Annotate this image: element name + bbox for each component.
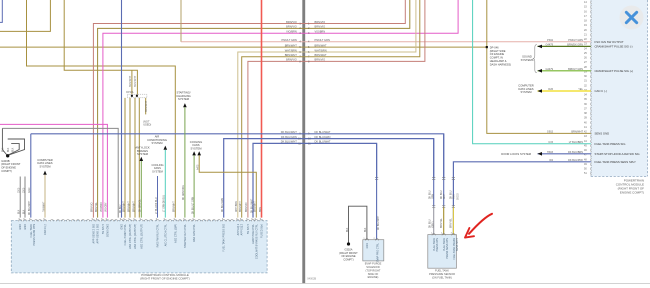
svg-text:(RIGHT FRONT: (RIGHT FRONT bbox=[339, 251, 358, 255]
wire W6 WHT/BRN bbox=[238, 0, 416, 218]
svg-text:FUEL PUMP CTRL: FUEL PUMP CTRL bbox=[124, 223, 127, 245]
svg-text:WHT/BRN: WHT/BRN bbox=[285, 48, 297, 52]
svg-text:DK BLU/WHT: DK BLU/WHT bbox=[315, 130, 331, 134]
svg-text:W4: W4 bbox=[549, 159, 553, 162]
evap pin labels bbox=[366, 242, 379, 262]
svg-text:BRN/YEL: BRN/YEL bbox=[441, 217, 443, 228]
wire cooling olive bbox=[199, 155, 256, 217]
G302A labels bbox=[339, 247, 358, 261]
svg-text:PRESSURE SENSOR: PRESSURE SENSOR bbox=[429, 272, 455, 276]
svg-text:APP SENS 1 SIG: APP SENS 1 SIG bbox=[97, 224, 100, 244]
svg-text:SENS SPLY: SENS SPLY bbox=[456, 238, 459, 252]
svg-text:DK BLU/BRN: DK BLU/BRN bbox=[568, 151, 583, 154]
sensor wire labels bbox=[430, 190, 460, 228]
svg-text:COMPUTER: COMPUTER bbox=[518, 83, 533, 87]
svg-text:FUEL TANK: FUEL TANK bbox=[435, 269, 449, 273]
PCM caption left page bbox=[140, 273, 190, 280]
computer data lines text L bbox=[37, 158, 52, 169]
evap caption bbox=[365, 262, 382, 280]
svg-text:SYSTEM: SYSTEM bbox=[137, 152, 149, 156]
svg-text:SENS GND: SENS GND bbox=[106, 224, 109, 237]
svg-text:DK BLU/: DK BLU/ bbox=[451, 190, 453, 199]
svg-text:VIO/BRN: VIO/BRN bbox=[101, 202, 103, 212]
panel left dashed border bbox=[590, 0, 592, 176]
svg-text:ASD CTRL (OUTPUT): ASD CTRL (OUTPUT) bbox=[140, 224, 143, 249]
svg-text:DASH HARNESS): DASH HARNESS) bbox=[490, 62, 511, 66]
svg-text:5V SPLY: 5V SPLY bbox=[102, 224, 105, 234]
wire R10 DK BLU/GRN bbox=[224, 139, 434, 218]
svg-text:OF ENGINE: OF ENGINE bbox=[341, 254, 356, 258]
svg-text:DK BLU/: DK BLU/ bbox=[430, 190, 432, 199]
red arrow head bbox=[465, 228, 474, 238]
wire press sply bbox=[453, 162, 590, 235]
PCM connector panel bbox=[591, 0, 648, 176]
cooling fans text bbox=[190, 140, 202, 151]
svg-text:DP-046: DP-046 bbox=[490, 45, 499, 49]
svg-text:BRN/LT GRN: BRN/LT GRN bbox=[568, 68, 583, 71]
svg-text:DK BLU/WHT: DK BLU/WHT bbox=[281, 130, 297, 134]
svg-text:USED): USED) bbox=[143, 123, 151, 127]
svg-text:VIO/BRN: VIO/BRN bbox=[286, 30, 297, 34]
wire net-A olive bbox=[0, 0, 50, 31]
wire LT BLU cooling2 bbox=[157, 176, 159, 218]
ground feed 3 bbox=[8, 144, 19, 155]
svg-text:C15: C15 bbox=[548, 141, 553, 144]
svg-text:START-STOP HOOD AJAR SW SIG: START-STOP HOOD AJAR SW SIG bbox=[595, 152, 640, 156]
panel pin function labels bbox=[595, 40, 640, 164]
PCM pin labels left page bbox=[19, 223, 263, 259]
evap pin arcs bbox=[365, 239, 378, 241]
svg-text:SYSTEM: SYSTEM bbox=[520, 90, 532, 94]
svg-text:COOLANT BYPASS RLY CTRL: COOLANT BYPASS RLY CTRL bbox=[255, 223, 258, 259]
inline connectors bbox=[375, 177, 455, 207]
crank plus arrow bbox=[538, 69, 543, 73]
red annotation arrow bbox=[469, 214, 492, 234]
svg-text:DATA LINES: DATA LINES bbox=[518, 87, 533, 91]
svg-text:A475: A475 bbox=[197, 164, 200, 170]
svg-text:CRANKSHAFT PULSE SIG (+): CRANKSHAFT PULSE SIG (+) bbox=[595, 69, 634, 73]
svg-text:DK BLU/WHT: DK BLU/WHT bbox=[29, 200, 31, 215]
ground feed 2 bbox=[8, 139, 25, 155]
svg-text:BRN/VIO: BRN/VIO bbox=[315, 20, 326, 24]
svg-text:VIO/GRY: VIO/GRY bbox=[106, 202, 108, 212]
svg-text:LT BLU/BRN: LT BLU/BRN bbox=[569, 141, 583, 144]
svg-text:APP EQ 1: APP EQ 1 bbox=[237, 223, 240, 235]
svg-text:BLK: BLK bbox=[23, 209, 25, 214]
svg-text:A999: A999 bbox=[28, 187, 31, 193]
svg-text:DK BLU/GRN: DK BLU/GRN bbox=[281, 135, 297, 139]
svg-text:COMPT): COMPT) bbox=[343, 258, 353, 262]
svg-text:(RIGHT FRONT: (RIGHT FRONT bbox=[1, 162, 21, 166]
cooling fan arrow 1 bbox=[192, 151, 196, 155]
svg-text:HEADLAMP &: HEADLAMP & bbox=[490, 59, 507, 63]
pcm gnd wire 1 bbox=[19, 177, 21, 218]
PCM pin numbers left page bbox=[18, 219, 261, 221]
wire sensor2 lower bbox=[443, 207, 445, 235]
svg-text:G4479: G4479 bbox=[545, 44, 553, 47]
svg-text:DK BLU/WHT: DK BLU/WHT bbox=[251, 198, 253, 213]
svg-text:SIDE OF: SIDE OF bbox=[368, 272, 379, 276]
svg-text:COMPUTER: COMPUTER bbox=[37, 158, 52, 162]
svg-text:DOOR LOCKS SYSTEM: DOOR LOCKS SYSTEM bbox=[501, 152, 531, 156]
hood ajar arrow bbox=[538, 152, 543, 156]
svg-text:CRANKSHAFT PULSE SIG (-): CRANKSHAFT PULSE SIG (-) bbox=[595, 45, 633, 49]
ground point G303B bbox=[6, 154, 9, 157]
starting charging arrow bbox=[183, 103, 187, 107]
wire DK GRN abs bbox=[140, 161, 142, 218]
splice out not-used bbox=[145, 98, 147, 115]
cooling fan arrow 2 bbox=[197, 151, 201, 155]
splice DP10L dot2 bbox=[136, 95, 138, 97]
wire blue R9 vertical bbox=[30, 134, 32, 218]
svg-text:ASD CTRL (O/P): ASD CTRL (O/P) bbox=[174, 224, 177, 243]
svg-text:BRN/WHT: BRN/WHT bbox=[285, 43, 298, 47]
svg-text:YEL: YEL bbox=[578, 88, 583, 91]
svg-text:Z909: Z909 bbox=[19, 187, 21, 193]
svg-text:GND: GND bbox=[366, 243, 369, 249]
svg-text:DK BLU/PNK: DK BLU/PNK bbox=[568, 159, 583, 162]
svg-text:BRN/VIO: BRN/VIO bbox=[315, 25, 326, 29]
svg-text:GND: GND bbox=[24, 224, 27, 230]
svg-text:BRN/VIO: BRN/VIO bbox=[286, 25, 297, 29]
wire sensor2 upper bbox=[443, 134, 445, 207]
wire evap blue bbox=[376, 143, 378, 239]
svg-text:APP EQ 2: APP EQ 2 bbox=[241, 223, 244, 235]
wire cooling green bbox=[193, 155, 195, 217]
svg-text:APP SENS 2 SIG: APP SENS 2 SIG bbox=[92, 224, 95, 244]
svg-text:WHT/BRN: WHT/BRN bbox=[315, 48, 327, 52]
svg-text:FUEL TANK PRESS SENS SPLY: FUEL TANK PRESS SENS SPLY bbox=[595, 160, 637, 164]
svg-text:COOLING: COOLING bbox=[190, 140, 202, 144]
svg-text:DK BLU/GRN: DK BLU/GRN bbox=[315, 135, 331, 139]
junction dot DP-046 bbox=[486, 46, 488, 48]
svg-text:LT GRN/DK BLU: LT GRN/DK BLU bbox=[164, 195, 166, 212]
can c arrow bbox=[538, 89, 543, 93]
svg-text:DK BLU/WHT: DK BLU/WHT bbox=[315, 140, 331, 144]
svg-text:GRN: GRN bbox=[433, 194, 435, 199]
svg-text:RAD FAN CTRL: RAD FAN CTRL bbox=[193, 223, 196, 242]
wire W3 VIO/BRN bbox=[103, 0, 458, 218]
splice out 3 bbox=[134, 98, 136, 218]
wire LT GRN/DK BLU bbox=[164, 150, 166, 218]
svg-text:BRN/YEL: BRN/YEL bbox=[451, 217, 453, 228]
computer data arrow L bbox=[43, 171, 47, 175]
svg-text:DK BLU/WHT: DK BLU/WHT bbox=[378, 215, 380, 230]
svg-text:OF ENGINE: OF ENGINE bbox=[1, 166, 16, 170]
svg-text:CAN C (-): CAN C (-) bbox=[595, 89, 607, 93]
splice out 2 bbox=[129, 98, 131, 218]
EVAP solenoid box bbox=[363, 240, 384, 261]
svg-text:STARTING/: STARTING/ bbox=[176, 90, 190, 94]
svg-text:BRN: BRN bbox=[260, 207, 262, 212]
svg-text:PRESS SENS RTN: PRESS SENS RTN bbox=[33, 224, 36, 246]
svg-text:BRN/WHT: BRN/WHT bbox=[174, 201, 176, 212]
svg-text:SYSTEM: SYSTEM bbox=[152, 169, 163, 173]
FTPS pin numbers bbox=[431, 233, 453, 235]
anti-lock text bbox=[135, 145, 150, 156]
svg-text:DK BLU/WHT: DK BLU/WHT bbox=[281, 140, 297, 144]
svg-text:SOLENOID: SOLENOID bbox=[366, 265, 380, 269]
PCM module caption bbox=[616, 179, 644, 195]
DP-046 text bbox=[490, 45, 511, 66]
wire W2 BRN/VIO bbox=[98, 0, 410, 218]
PCM pin arcs left page bbox=[19, 219, 264, 221]
svg-text:PNK/LT GRN: PNK/LT GRN bbox=[568, 39, 583, 42]
svg-text:FUSED B(+): FUSED B(+) bbox=[261, 224, 264, 238]
wire R9 DK BLU/WHT bbox=[31, 134, 444, 179]
wire sensor1 lower bbox=[433, 207, 435, 235]
svg-text:SYSTEM: SYSTEM bbox=[39, 165, 51, 169]
wire W5 BRN/WHT row bbox=[0, 46, 487, 48]
svg-text:COMPT): COMPT) bbox=[1, 169, 12, 173]
splice DP10L wire in bbox=[131, 70, 133, 94]
svg-text:DK BLU/GRN: DK BLU/GRN bbox=[222, 198, 224, 212]
svg-text:DK BLU/: DK BLU/ bbox=[430, 219, 432, 228]
wire hood ajar bbox=[538, 153, 591, 155]
wire DK GRN/ORG bbox=[184, 107, 186, 217]
svg-text:BRN/WHT: BRN/WHT bbox=[133, 201, 135, 212]
svg-text:CHARGING: CHARGING bbox=[176, 94, 190, 98]
svg-text:BRN/WHT: BRN/WHT bbox=[315, 43, 328, 47]
svg-text:BRN/VIO: BRN/VIO bbox=[286, 20, 297, 24]
wire blue stub top-left bbox=[0, 0, 2, 22]
svg-text:G302A: G302A bbox=[344, 247, 352, 251]
wire W8 BRN/VIO bbox=[248, 0, 425, 218]
svg-text:SENS GND: SENS GND bbox=[595, 132, 610, 136]
gnd wire labels bbox=[19, 187, 32, 215]
FTPS box bbox=[428, 235, 457, 269]
ground feed 1 bbox=[2, 128, 6, 154]
svg-text:BRN/WHT: BRN/WHT bbox=[129, 75, 132, 87]
sound systems brace bbox=[533, 45, 537, 73]
svg-text:(GRY): (GRY) bbox=[433, 221, 435, 228]
air conditioning text bbox=[147, 134, 167, 145]
svg-text:DK BLU: DK BLU bbox=[120, 204, 122, 213]
svg-text:ANTI-LOCK: ANTI-LOCK bbox=[135, 145, 150, 149]
svg-text:WHT: WHT bbox=[444, 193, 446, 199]
svg-text:DK BLU/LT GRN: DK BLU/LT GRN bbox=[192, 197, 194, 214]
svg-text:BRN/VIO: BRN/VIO bbox=[315, 58, 326, 62]
svg-text:S0003: S0003 bbox=[458, 193, 460, 200]
panel wire labels bbox=[545, 39, 583, 162]
panel right dashed border bbox=[647, 0, 649, 176]
svg-text:BLK: BLK bbox=[19, 209, 21, 214]
wire sensor3 lower bbox=[452, 207, 454, 235]
close button X bbox=[626, 12, 636, 22]
wire W1 BRN/VIO bbox=[93, 0, 405, 218]
svg-text:RAD FAN RLY CTRL: RAD FAN RLY CTRL bbox=[157, 223, 160, 247]
svg-text:FANS: FANS bbox=[192, 143, 199, 147]
svg-text:COMPT, IN: COMPT, IN bbox=[490, 56, 503, 60]
svg-text:04002B: 04002B bbox=[307, 277, 316, 281]
air conditioning arrow bbox=[164, 146, 168, 150]
svg-text:FUEL TANK PRESS SIG: FUEL TANK PRESS SIG bbox=[595, 142, 626, 146]
misc wire labels mid bbox=[92, 164, 262, 214]
svg-text:BRN/WHT: BRN/WHT bbox=[240, 201, 242, 212]
FTPS caption bbox=[429, 269, 455, 280]
splice DP10L box bbox=[127, 94, 147, 98]
wire blue vertical x121.5 bbox=[121, 0, 123, 218]
svg-text:CONDITIONING: CONDITIONING bbox=[147, 138, 167, 142]
svg-text:FUEL TANK PRESS SIG: FUEL TANK PRESS SIG bbox=[223, 224, 226, 252]
svg-text:BLK: BLK bbox=[2, 147, 4, 152]
svg-text:DATA LINES: DATA LINES bbox=[37, 161, 52, 165]
svg-text:BLK: BLK bbox=[347, 227, 349, 232]
svg-text:BRAKES: BRAKES bbox=[137, 149, 148, 153]
starting charging text bbox=[176, 90, 191, 101]
svg-text:BRN/VIO: BRN/VIO bbox=[92, 202, 94, 212]
close button circle bbox=[620, 6, 644, 30]
svg-text:A/C CLUTCH CTRL: A/C CLUTCH CTRL bbox=[164, 223, 167, 246]
svg-text:5V SPLY: 5V SPLY bbox=[247, 224, 250, 234]
wire LT BLU/BRN teal bbox=[473, 0, 591, 144]
svg-text:FSO IGN SW OUTPUT: FSO IGN SW OUTPUT bbox=[595, 40, 624, 44]
divider wire labels bbox=[281, 20, 331, 146]
computer data lines text R bbox=[518, 83, 533, 94]
svg-text:(TOP RIGHT: (TOP RIGHT bbox=[366, 268, 381, 272]
wire TAN/WHT bbox=[44, 175, 46, 218]
pcm gnd wire 2 bbox=[24, 177, 26, 218]
page divider bbox=[302, 0, 305, 283]
evap pin numbers bbox=[363, 238, 375, 240]
wire SENS GND BRN/WHT bbox=[487, 0, 591, 133]
gray module outline bbox=[2, 128, 118, 217]
wire W4 vertical bbox=[180, 0, 182, 42]
svg-text:EVAP PURGE: EVAP PURGE bbox=[365, 262, 382, 266]
svg-text:H303: H303 bbox=[547, 151, 554, 154]
bottom border bbox=[0, 283, 650, 285]
svg-text:SOUND: SOUND bbox=[522, 55, 532, 59]
svg-text:BRN/DK GRN: BRN/DK GRN bbox=[567, 44, 583, 47]
svg-text:PNK/LT GRN: PNK/LT GRN bbox=[315, 38, 330, 42]
splice DP10L dot1 bbox=[131, 95, 133, 97]
svg-text:SYSTEM: SYSTEM bbox=[190, 147, 202, 151]
svg-text:SYSTEMS: SYSTEMS bbox=[521, 58, 534, 62]
splice out 1 bbox=[124, 98, 126, 218]
svg-text:G4479: G4479 bbox=[545, 68, 553, 71]
wire R11 DK BLU/WHT bbox=[253, 143, 377, 217]
svg-text:BRN/WHT: BRN/WHT bbox=[285, 53, 298, 57]
wire magenta2 VIO/GRY bbox=[0, 124, 107, 217]
svg-text:CAN C (-): CAN C (-) bbox=[44, 224, 47, 235]
svg-text:EVAP PRG CTRL: EVAP PRG CTRL bbox=[376, 242, 379, 262]
splice out 4 bbox=[138, 98, 140, 218]
splice wire labels bbox=[129, 75, 148, 112]
cooling fans 2 text bbox=[152, 163, 164, 173]
sound systems text bbox=[521, 55, 534, 62]
wire crank minus bbox=[538, 45, 591, 47]
svg-text:BRN/WHT: BRN/WHT bbox=[145, 100, 148, 112]
svg-text:ASD CTRL (OUTPUT): ASD CTRL (OUTPUT) bbox=[134, 224, 137, 249]
svg-text:VIO/BRN: VIO/BRN bbox=[315, 30, 326, 34]
svg-text:(ON FUEL TANK): (ON FUEL TANK) bbox=[432, 275, 452, 279]
svg-text:SYSTEM: SYSTEM bbox=[178, 97, 190, 101]
svg-text:DK GRN/ORG: DK GRN/ORG bbox=[183, 185, 185, 200]
not used label bbox=[143, 119, 151, 126]
svg-text:D26: D26 bbox=[548, 88, 553, 91]
svg-text:WHT/BRN: WHT/BRN bbox=[236, 201, 238, 212]
svg-text:OF ENGINE: OF ENGINE bbox=[490, 52, 505, 56]
wire olive B x64.2 bbox=[64, 0, 137, 95]
FTPS pin arcs bbox=[432, 233, 455, 235]
svg-text:BLK: BLK bbox=[12, 147, 14, 152]
wire W4 PNK/LT GRN bbox=[181, 41, 591, 43]
svg-text:P302: P302 bbox=[547, 39, 553, 42]
svg-text:BRN/WHT: BRN/WHT bbox=[134, 75, 137, 87]
svg-text:DP10L: DP10L bbox=[126, 91, 134, 94]
svg-text:LT BLU/DK BLU: LT BLU/DK BLU bbox=[156, 197, 158, 214]
svg-text:TAN/WHT: TAN/WHT bbox=[42, 201, 45, 212]
wire CAN C yellow bbox=[538, 90, 591, 92]
svg-text:ASD CTRL (OUTPUT): ASD CTRL (OUTPUT) bbox=[129, 224, 132, 249]
svg-text:(RIGHT SIDE: (RIGHT SIDE bbox=[490, 49, 506, 53]
svg-text:STARTER RLY CTRL: STARTER RLY CTRL bbox=[184, 223, 187, 248]
svg-text:SYSTEM: SYSTEM bbox=[151, 141, 163, 145]
blk labels bbox=[2, 147, 14, 152]
PCM box left page bbox=[11, 221, 267, 273]
svg-text:(RIGHT FRONT OF ENGINE COMPT): (RIGHT FRONT OF ENGINE COMPT) bbox=[140, 277, 190, 281]
svg-text:BRN/WHT: BRN/WHT bbox=[255, 201, 257, 212]
svg-text:PRESS RTN: PRESS RTN bbox=[436, 238, 439, 252]
svg-text:PNK/LT GRN: PNK/LT GRN bbox=[281, 38, 296, 42]
svg-text:DK BLU/: DK BLU/ bbox=[441, 190, 443, 199]
crank minus arrow bbox=[538, 45, 543, 49]
ground label G303B bbox=[1, 159, 21, 173]
svg-text:PRESS SENS RTN: PRESS SENS RTN bbox=[446, 238, 449, 259]
svg-text:ENGINE COMPT): ENGINE COMPT) bbox=[620, 191, 644, 195]
svg-text:AIR: AIR bbox=[155, 134, 160, 138]
wire red vertical bbox=[261, 0, 263, 218]
svg-text:DK GRN/OL: DK GRN/OL bbox=[140, 199, 142, 212]
svg-text:BRN/YEL: BRN/YEL bbox=[96, 201, 98, 212]
ground point G302A bbox=[347, 242, 350, 245]
FTPS pin labels bbox=[433, 238, 459, 260]
svg-text:BRN/VIO: BRN/VIO bbox=[246, 202, 248, 212]
anti-lock arrow bbox=[140, 157, 144, 161]
wire crank plus bbox=[538, 70, 591, 72]
svg-text:BRN/WHT: BRN/WHT bbox=[571, 131, 583, 134]
panel bottom dashed border bbox=[591, 175, 648, 177]
panel pin numbers bbox=[584, 1, 587, 175]
wire olive A x26.5 bbox=[27, 0, 176, 218]
wire evap ground path bbox=[349, 206, 367, 242]
svg-text:BRN/VIO: BRN/VIO bbox=[286, 58, 297, 62]
blk labels evap bbox=[347, 227, 367, 232]
svg-text:G915: G915 bbox=[547, 131, 554, 134]
panel pin arcs bbox=[590, 1, 593, 176]
svg-text:BLK: BLK bbox=[365, 227, 367, 232]
svg-text:ENGINE): ENGINE) bbox=[368, 275, 379, 279]
svg-text:BRN/WHT: BRN/WHT bbox=[123, 201, 125, 212]
svg-text:G303B: G303B bbox=[1, 159, 10, 163]
svg-text:Z909: Z909 bbox=[23, 187, 25, 193]
svg-text:BRN/WHT: BRN/WHT bbox=[128, 201, 130, 212]
svg-text:BRN/WHT: BRN/WHT bbox=[315, 53, 328, 57]
wire sensor1 upper bbox=[433, 139, 435, 207]
wire W7 BRN/WHT bbox=[242, 0, 420, 218]
svg-text:GND: GND bbox=[19, 224, 22, 230]
svg-text:PNK: PNK bbox=[454, 194, 456, 199]
svg-text:BLK: BLK bbox=[8, 147, 10, 152]
